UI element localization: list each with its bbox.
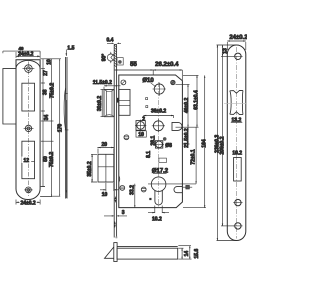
- latch tail box: [119, 89, 130, 115]
- right plate latch cutout: [230, 90, 243, 114]
- dim 0.4 chamfer: [107, 43, 121, 44]
- svg-text:75±0.2: 75±0.2: [49, 83, 55, 98]
- dim 239±0.3: [217, 45, 238, 241]
- svg-text:239±0.3: 239±0.3: [215, 135, 221, 153]
- Ø8 square: [155, 141, 162, 148]
- svg-text:55: 55: [130, 62, 137, 68]
- svg-text:Ø10: Ø10: [142, 78, 154, 84]
- dim 10 throw: [100, 183, 119, 191]
- case dim col 63.1±0.4: [183, 75, 199, 127]
- dim 14: [178, 248, 191, 259]
- black square pin: [149, 198, 151, 200]
- hatched hole bottom-left: [120, 186, 125, 191]
- small square hole b: [146, 106, 148, 108]
- cylinder upper circle: [152, 119, 165, 132]
- arrow mark deadbolt bottom: [118, 176, 120, 183]
- svg-text:2: 2: [142, 117, 145, 123]
- faint latch projection line: [224, 102, 246, 104]
- strike top screw hole: [23, 65, 35, 73]
- svg-text:13: 13: [223, 48, 229, 54]
- dim 3 faceplate: [104, 215, 127, 217]
- svg-text:10.2: 10.2: [232, 151, 242, 157]
- svg-text:30±0.2: 30±0.2: [97, 96, 103, 111]
- svg-text:40: 40: [18, 46, 24, 51]
- deadbolt front: [98, 154, 114, 182]
- svg-text:14: 14: [184, 251, 190, 257]
- small rect under Ø8: [159, 158, 167, 162]
- chamfer note box: [117, 58, 123, 65]
- bottom view latch body: [117, 247, 178, 260]
- dim column B 75±0.2: [41, 59, 60, 196]
- strike side view strip: [64, 57, 68, 199]
- euro cylinder hole: [151, 177, 166, 205]
- strike plate lip fold arc: [16, 60, 40, 68]
- latch stop black square: [117, 98, 119, 103]
- svg-text:8.1: 8.1: [146, 151, 152, 158]
- svg-text:3: 3: [122, 210, 125, 216]
- svg-text:24±0.2: 24±0.2: [18, 52, 33, 58]
- snib screw slot right: [174, 187, 182, 193]
- Ø17.2 label: [152, 169, 169, 175]
- svg-text:28.1: 28.1: [150, 136, 156, 146]
- euro centerline horizontal: [148, 183, 196, 185]
- dim 30±0.2 latch: [101, 89, 104, 116]
- case dim col 164: [183, 75, 206, 207]
- strike latch cutout: [22, 83, 35, 111]
- strike deadbolt cutout: [22, 141, 35, 179]
- right plate centerline: [236, 47, 238, 239]
- bottom view latch bevel: [105, 247, 114, 258]
- dim 13 right: [217, 45, 237, 56]
- lock case outline: [119, 75, 183, 208]
- svg-text:11.5±0.2: 11.5±0.2: [93, 80, 112, 86]
- dim 15.6: [178, 246, 191, 259]
- small square hole a: [146, 98, 148, 100]
- strike mid screw hole: [24, 125, 34, 131]
- dim 12 inside cutout: [22, 157, 35, 165]
- svg-text:170: 170: [57, 124, 63, 133]
- top dim line 55 / 26.2: [115, 69, 183, 80]
- dim 10.2 euro: [148, 206, 169, 214]
- strike bottom screw hole: [24, 187, 33, 193]
- dim 20 deadbolt: [97, 147, 114, 154]
- svg-text:10: 10: [102, 192, 108, 198]
- svg-text:27: 27: [43, 70, 49, 76]
- right plate top hole: [233, 53, 242, 59]
- follower square: [135, 120, 146, 132]
- dim 33.2: [134, 184, 149, 208]
- strike plate lip: [3, 69, 16, 124]
- small boxed mark: [183, 185, 192, 189]
- svg-text:63.1±0.4: 63.1±0.4: [193, 90, 199, 110]
- svg-text:24±0.2: 24±0.2: [20, 201, 35, 207]
- snib slot: [172, 122, 182, 130]
- svg-text:164: 164: [202, 139, 208, 148]
- stop pin dark: [163, 137, 167, 141]
- arrow marks on faceplate: [115, 196, 117, 203]
- svg-text:33.2: 33.2: [130, 185, 136, 195]
- dim 24±0.2 bottom: [16, 187, 52, 205]
- svg-text:10.2: 10.2: [152, 217, 162, 223]
- dim column A ticks: [41, 59, 62, 187]
- Ø8 circle: [154, 141, 164, 148]
- dim column C 170: [58, 59, 61, 196]
- svg-text:21.5±0.2: 21.5±0.2: [184, 128, 190, 148]
- svg-text:38: 38: [43, 89, 49, 95]
- case dim col 46±0.2: [176, 84, 199, 144]
- svg-text:46±0.2: 46±0.2: [184, 98, 190, 113]
- bottom view faceplate bar: [114, 243, 117, 262]
- svg-text:12: 12: [24, 158, 30, 164]
- latch bolt head: [104, 89, 114, 116]
- dim 209±0.2: [221, 56, 234, 226]
- lock faceplate strip: [114, 44, 116, 237]
- screw post right: [171, 80, 175, 84]
- svg-text:72±0.1: 72±0.1: [191, 149, 197, 164]
- svg-text:15.6: 15.6: [194, 249, 200, 259]
- boxed 10 label: [136, 131, 146, 138]
- hatched hole mid-left: [124, 135, 129, 140]
- right faceplate outline: [227, 45, 246, 241]
- right plate cylinder slot: [234, 158, 242, 182]
- right plate bottom hole a: [233, 199, 242, 205]
- dim 24±0.2 top: [16, 52, 40, 59]
- svg-text:1.5: 1.5: [67, 45, 74, 51]
- dim 1.5: [66, 50, 68, 57]
- hatched hole mid: [141, 187, 146, 192]
- dim 35±0.2 deadbolt: [91, 154, 97, 182]
- svg-text:0.4: 0.4: [107, 38, 114, 44]
- strike side lip curve: [64, 88, 66, 130]
- dim 24±0.2 right top: [227, 40, 246, 50]
- svg-text:75±0.2: 75±0.2: [49, 152, 55, 167]
- svg-text:20: 20: [102, 142, 108, 148]
- svg-text:34: 34: [44, 115, 50, 121]
- right plate bottom hole b: [233, 223, 242, 229]
- dim 11.5±0.2: [104, 85, 121, 89]
- 90° chamfer detail: [107, 52, 114, 64]
- strike centerline: [27, 62, 29, 197]
- bottom view tiny mark: [116, 237, 118, 239]
- svg-text:Ø8: Ø8: [165, 143, 172, 149]
- svg-text:24±0.2: 24±0.2: [229, 35, 247, 41]
- dim 40 top: [3, 51, 40, 53]
- svg-text:209±0.2: 209±0.2: [220, 136, 226, 154]
- case dim 72±0.1: [195, 127, 196, 184]
- dim 36±0.2: [144, 115, 174, 118]
- strike plate outline: [3, 60, 40, 200]
- cylinder centerline vertical: [158, 82, 160, 207]
- svg-text:35±0.2: 35±0.2: [87, 161, 93, 176]
- spindle hole Ø10: [153, 83, 167, 96]
- dim 13.2: [231, 117, 243, 123]
- screw post left: [121, 80, 126, 85]
- svg-text:26.2±0.4: 26.2±0.4: [155, 62, 179, 68]
- svg-text:10: 10: [138, 132, 144, 138]
- svg-text:90°: 90°: [102, 54, 108, 62]
